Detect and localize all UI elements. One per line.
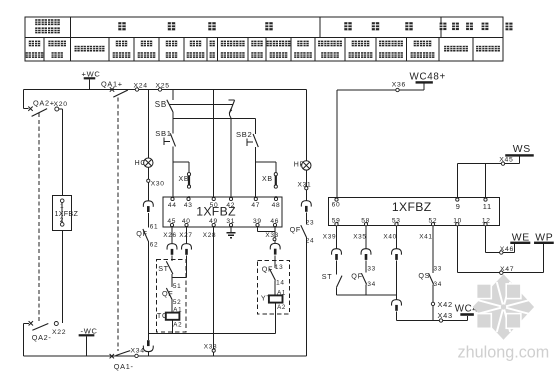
bus WE busbar xyxy=(510,232,530,244)
svg-text:33: 33 xyxy=(434,265,443,272)
svg-text:X36: X36 xyxy=(392,82,406,89)
header cell text: 合闸连接板 xyxy=(187,41,205,58)
svg-text:X40: X40 xyxy=(383,233,396,240)
pins bottom row of control 1XFBZ xyxy=(167,218,279,227)
header cell text: 直流断路器 xyxy=(26,41,44,58)
bus WS signal busbar xyxy=(505,144,534,164)
header text: 保护装置/工作电源 (protection device working power) xyxy=(35,19,60,33)
svg-text:XB: XB xyxy=(179,176,190,183)
svg-text:X47: X47 xyxy=(500,266,514,273)
svg-text:QF: QF xyxy=(351,272,362,281)
header cell text: 弹簧未储能信号 xyxy=(318,41,342,58)
wire: TC negative collector rail xyxy=(148,333,275,335)
svg-text:X20: X20 xyxy=(54,101,68,108)
contact ST anti-pumping xyxy=(158,261,186,277)
switch QA2- with terminal X22 xyxy=(24,321,67,342)
terminal X39 line with plug xyxy=(323,226,342,275)
wire: bottom -WC rail xyxy=(24,355,307,357)
svg-text:ST: ST xyxy=(158,264,169,273)
coil YT shunt trip A1-A2 xyxy=(261,289,286,333)
power WC48+ bus symbol xyxy=(410,72,446,91)
drawout plug on X27 line xyxy=(182,244,192,278)
terminal X41 line xyxy=(419,226,433,273)
link XB2 trip strap xyxy=(256,162,278,197)
breaker QA1+ on main rail xyxy=(101,80,128,97)
svg-text:QS: QS xyxy=(418,271,430,280)
watermark logo xyxy=(473,274,534,340)
switch QA2+ with terminal X20 xyxy=(28,98,67,195)
svg-text:X35: X35 xyxy=(353,233,366,240)
pins top row of signal 1XFBZ xyxy=(332,198,492,211)
pushbutton SB1 manual close xyxy=(155,119,175,197)
pushbutton SB dual contact with linkage xyxy=(155,100,235,114)
svg-text:+WC: +WC xyxy=(82,69,101,78)
svg-text:34: 34 xyxy=(367,281,376,288)
header cell text: 保护跳闸连接板 xyxy=(267,41,291,58)
wire: SB second contact down to pin 42 xyxy=(230,113,231,197)
power +WC bus symbol xyxy=(82,69,101,89)
svg-text:50: 50 xyxy=(210,202,219,209)
wire: left box to QA2- switch xyxy=(62,231,64,323)
header cell text: 预告信号 xyxy=(444,46,468,52)
svg-text:X28: X28 xyxy=(203,232,216,239)
wire: pin 10 to WP via X47 xyxy=(457,226,543,275)
terminal X28 and wire to bottom rail xyxy=(203,227,216,356)
svg-text:X24: X24 xyxy=(134,82,148,89)
svg-text:-WC: -WC xyxy=(81,326,98,335)
header cell text: 遥控合闸遥控分闸 xyxy=(221,41,245,58)
svg-text:X26: X26 xyxy=(163,232,176,239)
svg-text:X45: X45 xyxy=(499,157,513,164)
svg-text:X33: X33 xyxy=(265,232,278,239)
svg-text:X42: X42 xyxy=(438,300,453,309)
link XB1 closing strap xyxy=(173,162,191,197)
device 1XFBZ protection box (signal) xyxy=(329,198,500,226)
wire: pins 9/11 to WS with terminal X45 xyxy=(457,157,519,198)
watermark text zhulong.com xyxy=(458,344,550,362)
header cell text: 手车工作位置信号 xyxy=(379,41,403,58)
drawout plug on HR line xyxy=(301,201,311,225)
contact ST spring charged xyxy=(322,272,342,295)
lamp HG green indicator xyxy=(135,90,153,168)
header cell text: 手动合闸 xyxy=(166,41,177,58)
breaker QA1- on bottom rail xyxy=(110,351,134,371)
svg-text:QA1-: QA1- xyxy=(114,362,134,371)
pins bottom row of signal 1XFBZ xyxy=(332,217,491,225)
header cell text: 电源 xyxy=(210,41,215,58)
dashed linkage QA1 xyxy=(117,98,119,352)
wire: QA2 branch from rail down-left xyxy=(24,90,29,109)
svg-text:X39: X39 xyxy=(323,233,336,240)
svg-text:WS: WS xyxy=(513,144,531,155)
terminal X26 xyxy=(163,227,176,244)
terminal X35 line with plug xyxy=(353,226,371,273)
svg-text:33: 33 xyxy=(367,266,376,273)
power WC48- bus symbol xyxy=(455,303,489,320)
device 1XFBZ left box pins 1-2 xyxy=(52,196,78,231)
contact QF 13-14 xyxy=(262,261,285,295)
table: row1 column dividers xyxy=(71,17,442,38)
drawout plug on X33 line xyxy=(270,243,280,261)
terminal X25 xyxy=(156,82,170,91)
header text: 路 overflow char right of table xyxy=(506,23,513,31)
lamp HR red indicator branch xyxy=(294,90,311,171)
svg-text:43: 43 xyxy=(184,202,193,209)
svg-text:24: 24 xyxy=(306,238,315,245)
svg-text:ST: ST xyxy=(322,272,333,281)
svg-text:13: 13 xyxy=(275,264,284,271)
terminal X40 line with two plugs xyxy=(383,226,401,321)
wire: pins 39-46 tie bracket to X33 xyxy=(258,227,279,243)
header cell text: 手动分闸 xyxy=(251,41,262,58)
svg-text:48: 48 xyxy=(272,202,281,209)
pins top row of control 1XFBZ xyxy=(168,197,280,209)
wire: WC48+ feed rail xyxy=(337,90,424,198)
svg-text:A2: A2 xyxy=(173,321,182,328)
dashed enclosure YT trip mechanism xyxy=(258,261,290,314)
terminal X34 xyxy=(131,347,145,357)
svg-text:9: 9 xyxy=(456,202,461,211)
terminal X27 xyxy=(179,227,192,244)
drawout plug on X26 line xyxy=(167,244,177,261)
svg-text:61: 61 xyxy=(150,223,159,230)
header cell text: 控制小母线 xyxy=(75,46,105,52)
terminal X38 on lower wire xyxy=(204,344,217,353)
header cell text: 合闸指示灯 xyxy=(294,41,312,58)
contact QF 23-24 xyxy=(290,219,315,356)
svg-text:42: 42 xyxy=(226,202,235,209)
wire: pin 12 to WE via X46 xyxy=(486,226,515,255)
terminal X43 xyxy=(438,311,453,322)
header cell text: 保护器电源 xyxy=(48,41,66,58)
terminal X42 xyxy=(431,300,452,309)
contact QS 33-34 earthing switch position xyxy=(418,265,442,320)
wire: main +WC control rail xyxy=(24,89,307,91)
ground symbol under pin 31 xyxy=(227,227,236,238)
svg-text:51: 51 xyxy=(173,283,182,290)
header cell text: 接地刀位置信号 xyxy=(411,41,435,58)
wire: SB branch from main rail xyxy=(172,90,174,101)
svg-text:SB: SB xyxy=(155,100,167,109)
header cell text: 跳闸指示灯 xyxy=(138,41,156,58)
power -WC bus symbol xyxy=(79,326,98,356)
drawout plug on HG line xyxy=(143,201,153,228)
svg-text:X22: X22 xyxy=(52,329,66,336)
svg-text:60: 60 xyxy=(332,201,341,208)
svg-text:WC48+: WC48+ xyxy=(410,72,446,83)
contact QF 51-52 xyxy=(162,277,181,312)
contact QF 61-62 auxiliary xyxy=(136,223,158,333)
svg-text:SB1: SB1 xyxy=(155,129,171,138)
table: row2 column dividers xyxy=(44,38,473,62)
svg-text:X43: X43 xyxy=(438,311,453,320)
wire: SB lower junction row xyxy=(173,112,255,119)
wire: signal collector to X40 line xyxy=(337,294,397,296)
svg-text:14: 14 xyxy=(276,280,285,287)
wire: WC48- collector rail xyxy=(397,320,468,322)
svg-text:QF: QF xyxy=(290,225,301,234)
drawout plug above X34 xyxy=(143,334,153,356)
svg-text:X41: X41 xyxy=(419,233,432,240)
header text: 控制回路 (control circuit title) xyxy=(118,22,272,30)
svg-text:QA2-: QA2- xyxy=(32,333,52,342)
svg-text:44: 44 xyxy=(168,202,177,209)
pushbutton SB2 manual trip xyxy=(236,119,258,197)
terminal X30 xyxy=(147,167,165,200)
svg-text:X46: X46 xyxy=(500,246,514,253)
svg-text:X25: X25 xyxy=(156,82,170,89)
header text: 信号回 (signal circuit title) xyxy=(344,22,412,30)
svg-text:62: 62 xyxy=(150,241,159,248)
svg-text:A2: A2 xyxy=(277,304,286,311)
header cell text: 断路器位置信号 xyxy=(349,41,373,58)
bus WP busbar xyxy=(534,232,554,244)
coil TC closing coil A1-A2 xyxy=(157,306,182,333)
device 1XFBZ protection box (control) xyxy=(163,197,282,227)
svg-text:34: 34 xyxy=(434,281,443,288)
svg-text:52: 52 xyxy=(173,299,182,306)
terminal X31 xyxy=(298,170,312,201)
header text: 经报警回 (alarm circuit title) xyxy=(440,23,489,30)
svg-text:QA1+: QA1+ xyxy=(101,80,123,89)
svg-text:47: 47 xyxy=(251,202,260,209)
svg-text:SB2: SB2 xyxy=(236,130,252,139)
svg-text:1XFBZ: 1XFBZ xyxy=(392,200,432,214)
svg-text:X30: X30 xyxy=(151,180,165,187)
svg-text:XB: XB xyxy=(262,176,273,183)
svg-text:1XFBZ: 1XFBZ xyxy=(55,209,79,218)
wire: QA2- down to bottom rail xyxy=(23,323,25,356)
svg-text:zhulong.com: zhulong.com xyxy=(458,344,550,362)
terminal X36 xyxy=(392,82,406,92)
svg-text:X34: X34 xyxy=(131,347,145,354)
svg-text:X27: X27 xyxy=(179,232,192,239)
dashed enclosure TC operating mechanism xyxy=(157,259,186,332)
dashed linkage QA2 xyxy=(38,113,40,321)
contact QF 33-34 breaker position xyxy=(351,266,376,295)
svg-text:23: 23 xyxy=(306,219,315,226)
table: header grid outer frame xyxy=(25,17,503,61)
svg-text:QA2+: QA2+ xyxy=(33,98,55,107)
header cell text: 事故信号 xyxy=(476,46,500,52)
header cell text: 直流断路器 xyxy=(113,41,131,58)
terminal X24 xyxy=(134,82,148,91)
wire: centre drop to pin 50 xyxy=(213,90,215,198)
svg-text:11: 11 xyxy=(483,202,492,211)
